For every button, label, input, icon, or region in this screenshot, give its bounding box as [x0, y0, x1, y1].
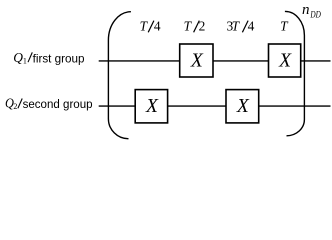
svg-text:T: T — [232, 18, 241, 33]
svg-text:2: 2 — [199, 18, 206, 33]
svg-text:4: 4 — [248, 18, 255, 33]
svg-text:1: 1 — [23, 57, 27, 66]
svg-text:second group: second group — [23, 99, 93, 111]
svg-text:X: X — [190, 51, 204, 72]
svg-text:DD: DD — [310, 10, 321, 20]
svg-text:X: X — [236, 96, 250, 117]
svg-text:T: T — [280, 18, 289, 33]
svg-text:X: X — [145, 96, 159, 117]
svg-text:2: 2 — [13, 102, 17, 111]
svg-text:T: T — [184, 18, 193, 33]
svg-text:first group: first group — [33, 53, 85, 66]
svg-text:4: 4 — [154, 18, 161, 33]
svg-text:X: X — [278, 51, 292, 72]
svg-text:n: n — [302, 2, 310, 18]
svg-text:T: T — [140, 18, 149, 33]
svg-text:Q: Q — [13, 50, 23, 65]
